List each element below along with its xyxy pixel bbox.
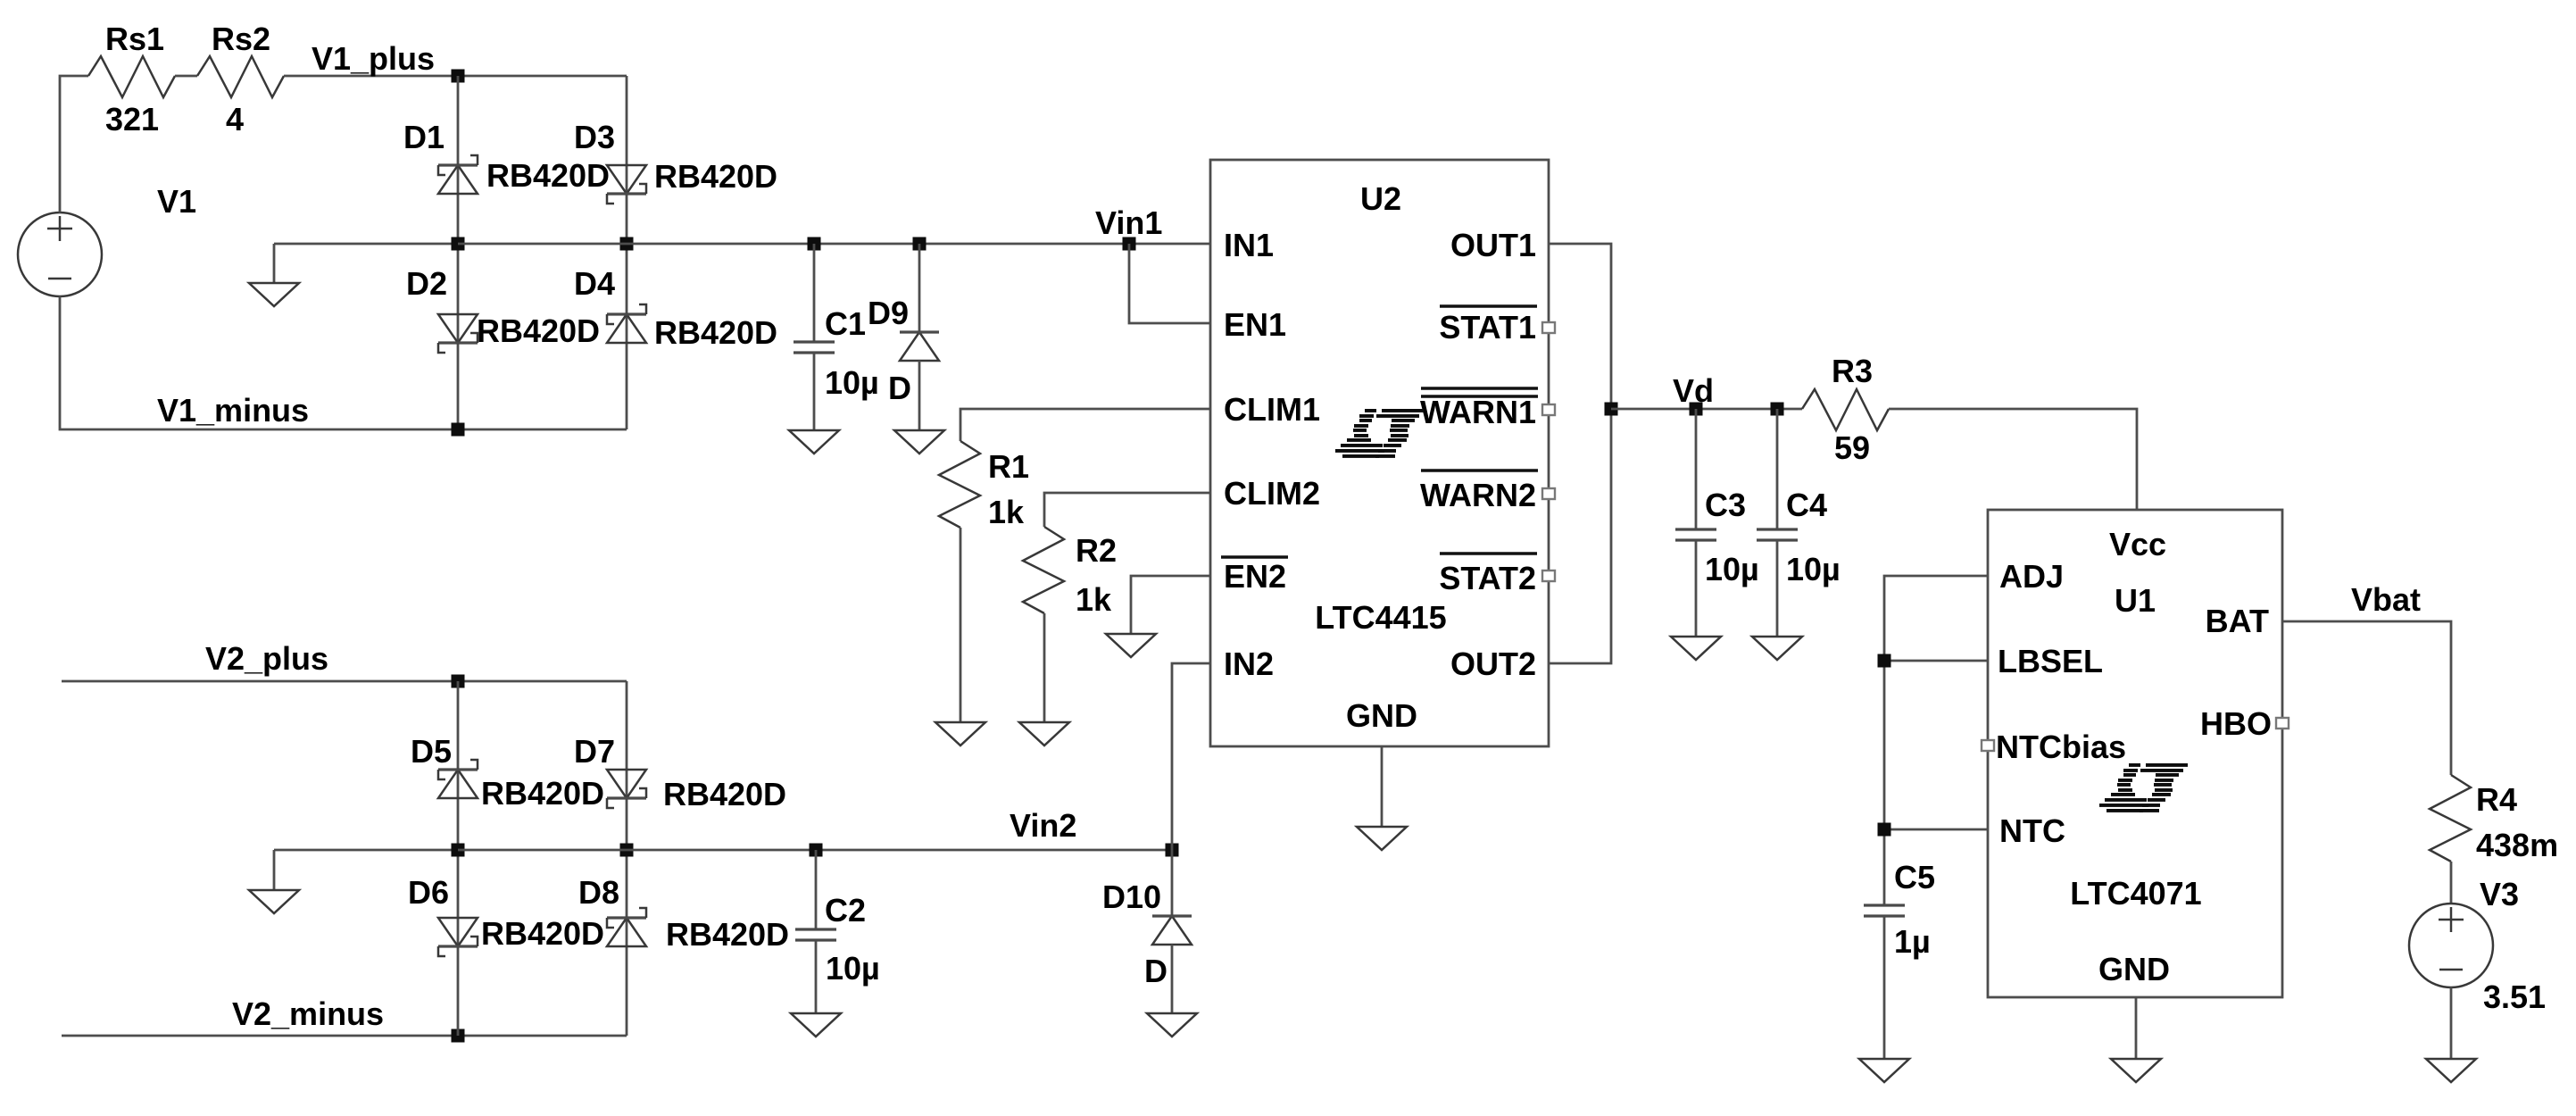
label C1 <box>825 305 866 342</box>
svg-text:Vcc: Vcc <box>2109 526 2166 562</box>
svg-text:10µ: 10µ <box>826 950 880 987</box>
label C4 <box>1786 487 1827 523</box>
net label V1_minus <box>157 392 309 429</box>
junction Vin2 D10 <box>1166 844 1179 857</box>
svg-text:RB420D: RB420D <box>477 312 600 349</box>
resistor Rs2 <box>197 56 284 97</box>
wire LBSEL stub <box>1884 660 1988 662</box>
svg-text:V1_plus: V1_plus <box>312 40 435 77</box>
label R4 <box>2476 781 2517 818</box>
capacitor C2 <box>795 929 836 940</box>
wire D9 top lead <box>918 244 921 332</box>
svg-text:Vin1: Vin1 <box>1095 204 1162 241</box>
svg-text:R2: R2 <box>1076 532 1117 569</box>
value D of D9 <box>888 370 911 406</box>
wire OUT1 to Vd rail <box>1549 244 1611 663</box>
LT logo inside U2 <box>1335 409 1424 458</box>
wire D1 column <box>457 76 460 429</box>
ground D9 <box>894 430 944 454</box>
svg-text:3.51: 3.51 <box>2483 979 2546 1015</box>
junction V1_plus <box>452 70 465 83</box>
ground EN2 <box>1106 634 1156 657</box>
capacitor C1 <box>794 342 835 353</box>
value 3.51 of V3 <box>2483 979 2546 1015</box>
value 10u of C3 <box>1705 551 1759 587</box>
wire C4 top lead <box>1776 409 1779 529</box>
svg-text:CLIM1: CLIM1 <box>1224 391 1320 428</box>
svg-text:BAT: BAT <box>2206 603 2269 639</box>
overline STAT1 <box>1440 304 1537 307</box>
svg-text:NTCbias: NTCbias <box>1996 729 2126 765</box>
net label Vd <box>1673 372 1714 409</box>
overline WARN2 <box>1421 469 1538 471</box>
ground R2 <box>1019 722 1069 745</box>
value LTC4415 <box>1315 599 1446 636</box>
svg-text:C3: C3 <box>1705 487 1746 523</box>
ground D10 <box>1147 1013 1197 1037</box>
label U2 <box>1360 180 1401 217</box>
wire U1 GND lead <box>2135 997 2138 1059</box>
svg-text:1µ: 1µ <box>1894 923 1931 960</box>
svg-text:10µ: 10µ <box>1786 551 1841 587</box>
svg-text:C5: C5 <box>1894 859 1935 895</box>
label V1 <box>157 183 196 220</box>
svg-text:STAT1: STAT1 <box>1439 309 1536 346</box>
value 321 <box>105 101 159 137</box>
svg-text:10µ: 10µ <box>1705 551 1759 587</box>
net label V1_plus <box>312 40 435 77</box>
junction D9 <box>913 237 927 251</box>
wire NTC stub <box>1884 829 1988 831</box>
svg-text:OUT2: OUT2 <box>1450 645 1536 682</box>
svg-text:V2_minus: V2_minus <box>232 995 384 1032</box>
wire V1 top to Rs1 <box>60 76 88 212</box>
pin marker STAT2 <box>1542 570 1555 581</box>
wire CLIM1 to R1 <box>960 409 1210 441</box>
svg-text:D3: D3 <box>574 119 615 155</box>
diode D7 RB420D <box>607 770 646 808</box>
svg-text:U1: U1 <box>2115 582 2156 619</box>
label D1 <box>403 119 445 155</box>
wire ADJ rail <box>1884 576 1988 905</box>
svg-text:V2_plus: V2_plus <box>205 640 328 677</box>
label C5 <box>1894 859 1935 895</box>
wire net Vin1 rail <box>627 243 1210 246</box>
svg-text:1k: 1k <box>988 494 1025 530</box>
pin WARN1 <box>1420 394 1536 430</box>
pin OUT2 <box>1450 645 1536 682</box>
ground U1 <box>2111 1059 2161 1082</box>
net label Vbat <box>2351 581 2421 618</box>
svg-text:V1_minus: V1_minus <box>157 392 309 429</box>
wire net Vd <box>1611 408 1802 411</box>
svg-text:C1: C1 <box>825 305 866 342</box>
svg-text:RB420D: RB420D <box>666 916 789 953</box>
value 10u of C1 <box>825 364 879 401</box>
net label Vin2 <box>1010 807 1076 844</box>
label Rs2 <box>212 21 270 57</box>
wire net V2_plus <box>62 680 627 683</box>
wire mid rail bridge1 to ground stub <box>274 243 458 246</box>
wire R3 to Vcc <box>1889 409 2137 510</box>
pin STAT2 <box>1439 560 1536 596</box>
overline WARN1 upper <box>1421 387 1538 389</box>
voltage source V1 <box>18 212 102 296</box>
value 4 <box>226 101 244 137</box>
capacitor C3 <box>1675 529 1716 540</box>
svg-text:D7: D7 <box>574 733 615 770</box>
wire net Vin2 rail <box>627 849 1172 852</box>
svg-text:ADJ: ADJ <box>1999 558 2064 595</box>
pin NTC <box>1999 812 2065 849</box>
wire mid rail bridge2 ground stub <box>274 849 458 852</box>
value 10u of C4 <box>1786 551 1841 587</box>
ground bridge2 <box>249 890 299 913</box>
svg-text:WARN2: WARN2 <box>1420 477 1536 513</box>
net label Vin1 <box>1095 204 1162 241</box>
wire net Vbat <box>2282 621 2451 775</box>
label D4 <box>574 265 615 302</box>
wire U2 GND lead <box>1381 746 1384 827</box>
pin BAT <box>2206 603 2269 639</box>
pin marker WARN1 <box>1542 404 1555 415</box>
svg-text:EN2: EN2 <box>1224 558 1286 595</box>
svg-text:Vbat: Vbat <box>2351 581 2421 618</box>
capacitor C4 <box>1757 529 1798 540</box>
voltage source V3 <box>2409 904 2493 987</box>
pin marker WARN2 <box>1542 488 1555 499</box>
value RB420D of D3 <box>654 158 777 195</box>
junction LBSEL <box>1878 654 1891 668</box>
pin marker STAT1 <box>1542 322 1555 333</box>
value 438m of R4 <box>2476 827 2558 863</box>
svg-text:GND: GND <box>1346 697 1417 734</box>
wire C5 bottom lead <box>1883 916 1886 1059</box>
overline STAT2 <box>1440 552 1537 554</box>
svg-text:IN1: IN1 <box>1224 227 1274 263</box>
svg-text:NTC: NTC <box>1999 812 2065 849</box>
resistor R3 <box>1802 389 1889 430</box>
label U1 <box>2115 582 2156 619</box>
wire D5 column <box>457 681 460 1036</box>
label D2 <box>406 265 447 302</box>
svg-text:EN1: EN1 <box>1224 306 1286 343</box>
pin LBSEL <box>1998 643 2103 679</box>
pin WARN2 <box>1420 477 1536 513</box>
junction bridge1 mid left <box>452 237 465 251</box>
junction Vd C3 <box>1690 403 1703 416</box>
pin IN1 <box>1224 227 1274 263</box>
diode D2 RB420D <box>438 314 478 353</box>
pin marker NTCbias <box>1982 740 1994 751</box>
wire EN2 to ground <box>1131 576 1210 634</box>
svg-text:RB420D: RB420D <box>486 157 610 194</box>
diode D3 RB420D <box>607 165 646 204</box>
wire Rs1 to Rs2 <box>175 75 197 78</box>
svg-text:V1: V1 <box>157 183 196 220</box>
svg-text:Rs2: Rs2 <box>212 21 270 57</box>
junction NTC <box>1878 823 1891 837</box>
wire bridge1 mid rail <box>458 243 627 246</box>
op-amp U1 LTC4071 box <box>1988 510 2282 997</box>
svg-text:D6: D6 <box>408 874 449 911</box>
value RB420D of D6 <box>481 915 604 952</box>
overline EN2 <box>1221 555 1288 558</box>
wire IN2 to Vin2 <box>1172 663 1210 916</box>
ground bridge1 <box>249 283 299 306</box>
wire C3 bottom lead <box>1695 540 1698 637</box>
wire ground stub drop bridge2 <box>273 850 276 890</box>
svg-text:321: 321 <box>105 101 159 137</box>
svg-text:LTC4071: LTC4071 <box>2070 875 2201 912</box>
junction V2_plus <box>452 675 465 688</box>
diode D9 <box>900 332 939 361</box>
svg-text:D4: D4 <box>574 265 615 302</box>
wire R1 bottom lead <box>960 528 962 722</box>
wire net V2_minus <box>62 1035 627 1037</box>
svg-text:59: 59 <box>1834 429 1870 466</box>
wire D10 bottom lead <box>1171 945 1174 1013</box>
diode D4 RB420D <box>607 304 646 343</box>
label C2 <box>825 892 866 929</box>
svg-text:C4: C4 <box>1786 487 1827 523</box>
pin EN2 <box>1224 558 1286 595</box>
ground R1 <box>935 722 985 745</box>
svg-text:1k: 1k <box>1076 581 1112 618</box>
svg-text:Vin2: Vin2 <box>1010 807 1076 844</box>
pin NTCbias <box>1996 729 2126 765</box>
junction C2 <box>810 844 823 857</box>
pin EN1 <box>1224 306 1286 343</box>
label Rs1 <box>105 21 164 57</box>
svg-text:RB420D: RB420D <box>663 776 786 812</box>
svg-text:D2: D2 <box>406 265 447 302</box>
wire C1 top lead <box>813 244 816 342</box>
junction Vd C4 <box>1771 403 1784 416</box>
value RB420D of D8 <box>666 916 789 953</box>
wire C4 bottom lead <box>1776 540 1779 637</box>
ground C5 <box>1859 1059 1909 1082</box>
resistor R4 <box>2430 775 2471 862</box>
label D6 <box>408 874 449 911</box>
junction C1 <box>808 237 821 251</box>
pin GND of U2 <box>1346 697 1417 734</box>
pin OUT1 <box>1450 227 1536 263</box>
value 1k of R1 <box>988 494 1025 530</box>
wire CLIM2 to R2 <box>1044 493 1210 527</box>
value RB420D of D7 <box>663 776 786 812</box>
svg-text:LBSEL: LBSEL <box>1998 643 2103 679</box>
pin IN2 <box>1224 645 1274 682</box>
LT logo inside U1 <box>2099 763 2188 812</box>
diode D8 RB420D <box>607 908 646 946</box>
value 1u of C5 <box>1894 923 1931 960</box>
svg-text:IN2: IN2 <box>1224 645 1274 682</box>
diode D10 <box>1152 916 1192 945</box>
junction bridge2 mid left <box>452 844 465 857</box>
svg-text:R3: R3 <box>1832 353 1873 389</box>
pin CLIM2 <box>1224 475 1320 512</box>
label C3 <box>1705 487 1746 523</box>
capacitor C5 <box>1864 905 1905 916</box>
label R2 <box>1076 532 1117 569</box>
svg-text:D10: D10 <box>1102 879 1161 915</box>
ground U2 <box>1357 827 1407 850</box>
junction bridge1 mid right <box>620 237 634 251</box>
pin GND of U1 <box>2098 951 2170 987</box>
junction V2_minus <box>452 1029 465 1043</box>
value RB420D of D4 <box>654 314 777 351</box>
svg-text:RB420D: RB420D <box>654 158 777 195</box>
value 1k of R2 <box>1076 581 1112 618</box>
svg-text:LTC4415: LTC4415 <box>1315 599 1446 636</box>
resistor R2 <box>1023 527 1064 613</box>
svg-text:U2: U2 <box>1360 180 1401 217</box>
svg-text:D: D <box>888 370 911 406</box>
pin HBO <box>2200 705 2272 742</box>
svg-text:D9: D9 <box>868 295 909 331</box>
value RB420D of D2 <box>477 312 600 349</box>
wire V1 bottom rail V1_minus <box>60 296 627 429</box>
svg-text:D5: D5 <box>411 733 452 770</box>
value LTC4071 <box>2070 875 2201 912</box>
junction OUT rail Vd <box>1605 403 1618 416</box>
svg-text:OUT1: OUT1 <box>1450 227 1536 263</box>
pin CLIM1 <box>1224 391 1320 428</box>
wire C3 top lead <box>1695 409 1698 529</box>
svg-text:RB420D: RB420D <box>481 775 604 812</box>
wire R2 bottom lead <box>1043 613 1046 722</box>
svg-text:CLIM2: CLIM2 <box>1224 475 1320 512</box>
svg-text:10µ: 10µ <box>825 364 879 401</box>
svg-text:HBO: HBO <box>2200 705 2272 742</box>
svg-text:V3: V3 <box>2480 876 2519 912</box>
label D9 <box>868 295 909 331</box>
value RB420D of D5 <box>481 775 604 812</box>
value 10u of C2 <box>826 950 880 987</box>
wire Vin1 to EN1 <box>1129 244 1210 323</box>
svg-text:Rs1: Rs1 <box>105 21 164 57</box>
resistor R1 <box>939 441 980 528</box>
value D of D10 <box>1144 953 1168 989</box>
wire D7 column <box>626 681 628 1036</box>
label R3 <box>1832 353 1873 389</box>
label D7 <box>574 733 615 770</box>
svg-text:STAT2: STAT2 <box>1439 560 1536 596</box>
pin ADJ <box>1999 558 2064 595</box>
wire node V1_plus <box>284 75 627 78</box>
op-amp U2 LTC4415 box <box>1210 160 1549 746</box>
wire C2 bottom lead <box>815 940 818 1013</box>
wire ground stub drop bridge1 <box>273 244 276 283</box>
svg-text:D8: D8 <box>578 874 619 911</box>
wire bridge2 mid rail <box>458 849 627 852</box>
diode D1 RB420D <box>438 155 478 194</box>
svg-text:WARN1: WARN1 <box>1420 394 1536 430</box>
value 59 of R3 <box>1834 429 1870 466</box>
svg-text:4: 4 <box>226 101 244 137</box>
junction bridge2 mid right <box>620 844 634 857</box>
pin marker HBO <box>2276 718 2289 729</box>
junction Vin1 <box>1123 237 1136 251</box>
svg-text:R4: R4 <box>2476 781 2517 818</box>
diode D5 RB420D <box>438 760 478 798</box>
pin STAT1 <box>1439 309 1536 346</box>
wire D3 column <box>626 76 628 429</box>
value RB420D of D1 <box>486 157 610 194</box>
svg-text:GND: GND <box>2098 951 2170 987</box>
wire R4 to V3 <box>2450 862 2453 904</box>
ground C4 <box>1752 637 1802 660</box>
svg-text:C2: C2 <box>825 892 866 929</box>
label D10 <box>1102 879 1161 915</box>
svg-text:RB420D: RB420D <box>654 314 777 351</box>
label D5 <box>411 733 452 770</box>
wire C1 bottom lead <box>813 353 816 430</box>
overline WARN1 lower <box>1421 395 1538 397</box>
wire D9 bottom lead <box>918 361 921 430</box>
pin Vcc <box>2109 526 2166 562</box>
label R1 <box>988 448 1029 485</box>
ground C3 <box>1671 637 1721 660</box>
label V3 <box>2480 876 2519 912</box>
svg-text:R1: R1 <box>988 448 1029 485</box>
ground C1 <box>789 430 839 454</box>
net label V2_minus <box>232 995 384 1032</box>
resistor Rs1 <box>88 56 175 97</box>
diode D6 RB420D <box>438 918 478 956</box>
svg-text:D: D <box>1144 953 1168 989</box>
net label V2_plus <box>205 640 328 677</box>
ground V3 <box>2426 1059 2476 1082</box>
junction bridge1 bottom <box>452 423 465 437</box>
svg-text:D1: D1 <box>403 119 445 155</box>
label D3 <box>574 119 615 155</box>
svg-text:RB420D: RB420D <box>481 915 604 952</box>
svg-text:438m: 438m <box>2476 827 2558 863</box>
ground C2 <box>791 1013 841 1037</box>
wire V3 bottom lead <box>2450 987 2453 1059</box>
wire C2 top lead <box>815 850 818 929</box>
label D8 <box>578 874 619 911</box>
